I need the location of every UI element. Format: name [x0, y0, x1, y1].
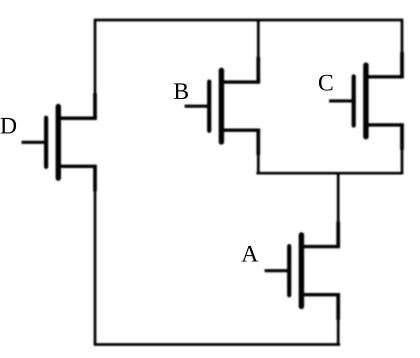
transistor D gate lead: [22, 141, 47, 144]
transistor C channel bar: [363, 65, 368, 137]
transistor C (NMOS): [329, 52, 404, 150]
transistor D gate bar: [44, 118, 48, 167]
transistor D source lead: [58, 165, 97, 168]
transistor A drain lead: [301, 245, 340, 248]
label A: [242, 246, 259, 262]
transistor C source lead: [366, 123, 404, 126]
transistor A gate bar: [287, 246, 291, 295]
transistor C gate bar: [352, 76, 356, 125]
transistor D (NMOS): [22, 93, 97, 191]
bottom wire: [94, 343, 340, 346]
top supply wire: [94, 19, 403, 22]
transistor D channel bar: [56, 107, 61, 179]
transistor D drain stub: [93, 93, 97, 118]
wire: transistor A source down to bottom wire: [337, 317, 340, 346]
transistor C drain stub: [400, 52, 404, 77]
transistor C drain lead: [366, 75, 404, 78]
label C: [319, 75, 333, 91]
transistor C source stub: [400, 125, 404, 150]
transistor B channel bar: [219, 70, 224, 142]
label B: [174, 83, 188, 99]
transistor B source lead: [221, 128, 260, 131]
wire: transistor C drain up to top wire: [401, 19, 404, 55]
label D: [1, 118, 16, 134]
wire: left vertical from top wire down to transistor D drain: [94, 19, 97, 95]
transistor B source stub: [256, 130, 260, 155]
wire: transistor A drain up to mid node: [337, 172, 340, 223]
transistor D drain lead: [58, 117, 97, 120]
wire: transistor B drain up to top wire: [257, 19, 260, 59]
transistor A (NMOS): [265, 222, 340, 320]
wire: transistor C source down to mid node: [401, 148, 404, 174]
transistor C gate lead: [329, 99, 354, 102]
transistor A drain stub: [336, 222, 340, 247]
wire: transistor D source down to bottom wire: [94, 188, 97, 346]
transistor D source stub: [93, 166, 97, 191]
transistor B drain lead: [221, 80, 260, 83]
transistor B (NMOS): [185, 57, 261, 155]
transistor A source stub: [336, 295, 340, 320]
wire: transistor B source down to mid node: [257, 153, 260, 174]
transistor B gate lead: [185, 105, 210, 108]
transistor B gate bar: [207, 82, 211, 131]
transistor A gate lead: [265, 269, 290, 272]
transistor B drain stub: [256, 57, 260, 82]
mid node wire joining B and C sources: [256, 172, 403, 175]
transistor A source lead: [301, 293, 340, 296]
transistor A channel bar: [299, 235, 304, 307]
